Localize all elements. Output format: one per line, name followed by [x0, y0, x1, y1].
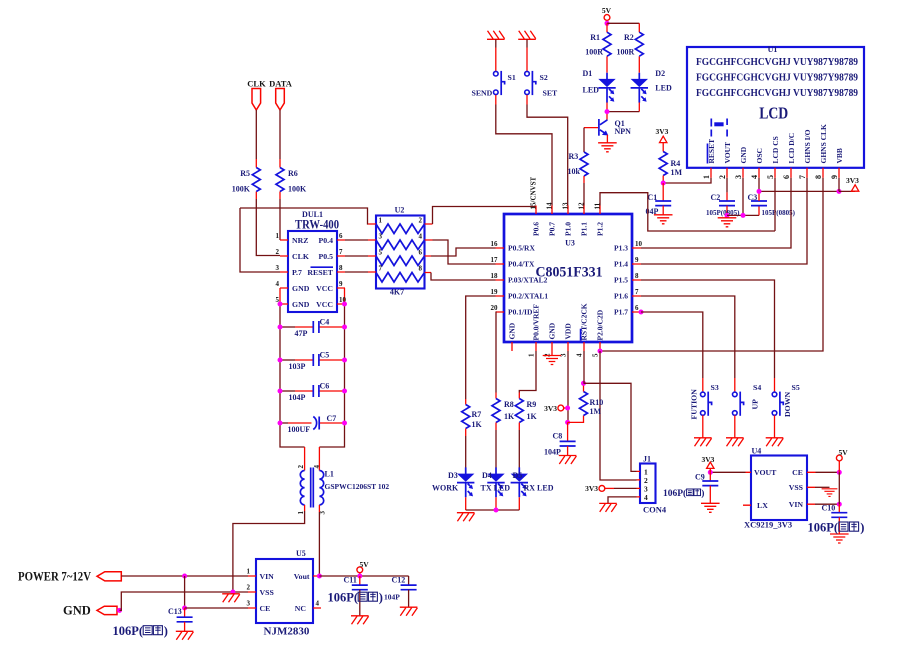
node GND arrow — [117, 608, 122, 613]
svg-text:D4: D4 — [482, 471, 492, 480]
svg-text:P0.5: P0.5 — [318, 252, 333, 261]
power 3V3 above R4 — [656, 127, 669, 152]
svg-text:P0.6: P0.6 — [532, 222, 541, 236]
svg-text:5V: 5V — [360, 560, 370, 569]
svg-text:3V3: 3V3 — [702, 455, 715, 464]
ground LED rail — [457, 513, 475, 522]
LED D3 WORK — [432, 467, 474, 497]
svg-text:1K: 1K — [504, 412, 515, 421]
node C6 left — [278, 389, 283, 394]
svg-text:OSC: OSC — [755, 148, 764, 163]
svg-text:D3: D3 — [448, 471, 458, 480]
display U1 LCD — [687, 45, 864, 179]
wire P.7 left rail — [240, 208, 280, 272]
svg-text:C7: C7 — [327, 414, 337, 423]
wire P2.0 to J1 pin2 — [600, 351, 637, 480]
svg-text:4K7: 4K7 — [390, 288, 404, 297]
svg-text:GHNS I/O: GHNS I/O — [803, 129, 812, 163]
svg-text:10k: 10k — [568, 167, 581, 176]
svg-text:S5: S5 — [792, 383, 800, 392]
svg-text:100UF: 100UF — [288, 425, 311, 434]
resistor R10 — [580, 383, 604, 416]
svg-text:): ) — [379, 591, 383, 605]
svg-text:104P: 104P — [544, 448, 561, 457]
node D1/D2/Q1 — [605, 109, 610, 114]
capacitor C3 — [748, 191, 796, 217]
power 5V at Vout — [357, 560, 369, 576]
svg-text:4: 4 — [576, 353, 584, 357]
svg-text:20: 20 — [491, 304, 499, 312]
wire LCD pin4 OSC to 3V3 rail — [759, 178, 839, 192]
svg-text:VCC: VCC — [316, 300, 333, 309]
wire Q1 base to R3 — [583, 128, 585, 152]
svg-text:100K: 100K — [232, 185, 251, 194]
svg-text:C9: C9 — [695, 473, 705, 482]
wire S3 to ground — [702, 415, 704, 437]
svg-text:VSS: VSS — [789, 483, 803, 492]
label C11 value 106P ceramic — [328, 591, 383, 605]
svg-text:NC: NC — [295, 604, 307, 613]
svg-text:VIN: VIN — [789, 500, 804, 509]
svg-text:6: 6 — [339, 232, 343, 240]
svg-text:VSS: VSS — [260, 588, 274, 597]
svg-text:100R: 100R — [585, 48, 603, 57]
wire U3 P2.0 to LCD pin8 — [600, 178, 823, 351]
svg-text:4: 4 — [313, 465, 321, 469]
wire VCC rail right — [319, 304, 344, 447]
svg-text:GHNS CLK: GHNS CLK — [819, 124, 828, 164]
node 5V/C11 — [357, 574, 362, 579]
svg-text:106P(: 106P( — [808, 521, 839, 535]
svg-text:100K: 100K — [288, 185, 307, 194]
power 5V top — [602, 6, 612, 23]
svg-text:100R: 100R — [617, 48, 635, 57]
svg-text:D1: D1 — [583, 69, 593, 78]
wire R3 to U3 pin12 — [583, 183, 585, 206]
regulator U5 NJM2830 — [247, 549, 322, 638]
node VDD/C8/R10 — [565, 420, 570, 425]
svg-text:106P(: 106P( — [113, 624, 144, 638]
wire POWER to U5 VIN — [121, 575, 248, 577]
svg-text:CLK: CLK — [292, 252, 309, 261]
svg-text:4: 4 — [316, 600, 320, 608]
svg-text:15/CNVST: 15/CNVST — [529, 176, 537, 209]
svg-text:L1: L1 — [325, 470, 334, 479]
svg-text:1: 1 — [297, 511, 305, 515]
svg-text:1M: 1M — [590, 407, 602, 416]
svg-text:8: 8 — [635, 272, 639, 280]
wire U2 pin4 to U3 P0.4/TX — [433, 240, 496, 264]
node VOUT/C9 — [708, 470, 713, 475]
wire S2 to U3 pin13 — [527, 95, 568, 206]
svg-text:7: 7 — [339, 248, 343, 256]
ground C8 — [559, 456, 577, 465]
LED D1 — [583, 69, 616, 103]
ground C2 — [718, 218, 737, 227]
svg-text:VDD: VDD — [564, 323, 573, 340]
switch S3 FUTION — [690, 383, 719, 420]
svg-text:TX LED: TX LED — [481, 484, 511, 493]
svg-text:LCD: LCD — [759, 104, 788, 123]
ground S3 — [694, 438, 712, 447]
svg-text:GND: GND — [508, 322, 517, 339]
svg-text:J1: J1 — [643, 455, 651, 464]
wire U3 P0.1/ID to R8 — [495, 312, 498, 393]
wire C2/pin3/C3 bottoms — [727, 214, 759, 216]
svg-text:1: 1 — [379, 217, 383, 225]
wire U3 P1.4 to LCD pin7 — [641, 178, 807, 264]
svg-text:C4: C4 — [320, 318, 330, 327]
svg-text:P2.0/C2D: P2.0/C2D — [596, 309, 605, 340]
wire LED cathodes rail — [466, 497, 520, 510]
antenna S1 — [487, 31, 505, 72]
wire DUL1 pin7 to U2 pin5 — [345, 255, 368, 257]
LED D5 RX — [511, 467, 554, 497]
svg-text:NPN: NPN — [615, 127, 632, 136]
svg-text:6: 6 — [419, 249, 423, 257]
switch S5 DOWN — [772, 383, 800, 417]
svg-text:P.03/XTAL2: P.03/XTAL2 — [508, 276, 548, 285]
capacitor C7 polarized — [280, 414, 345, 434]
svg-text:DOWN: DOWN — [783, 392, 792, 417]
node C13/CE — [182, 606, 187, 611]
svg-text:5V: 5V — [839, 448, 849, 457]
wire LCD pin1 RESET to R4/C1 — [663, 178, 711, 183]
svg-text:C3: C3 — [748, 193, 758, 202]
svg-text:C13: C13 — [168, 607, 182, 616]
ground C11 — [351, 616, 369, 625]
svg-text:5: 5 — [592, 353, 600, 357]
svg-text:R9: R9 — [527, 400, 537, 409]
wire L1 pin3 to Vout node — [318, 505, 320, 576]
capacitor C6 — [280, 382, 345, 402]
svg-text:1: 1 — [702, 175, 711, 179]
svg-text:106P(: 106P( — [663, 488, 686, 499]
capacitor C2 — [706, 192, 740, 217]
power 3V3 at C9 — [702, 455, 715, 473]
node C5 right — [342, 358, 347, 363]
svg-text:P1.6: P1.6 — [614, 292, 628, 301]
svg-text:UP: UP — [751, 399, 760, 410]
svg-text:R2: R2 — [624, 33, 634, 42]
svg-text:VOUT: VOUT — [723, 142, 732, 164]
svg-text:FGCGHFCGHCVGHJ VUY987Y98789: FGCGHFCGHCVGHJ VUY987Y98789 — [696, 72, 858, 84]
resistor R2 — [617, 23, 644, 73]
svg-text:TRW-400: TRW-400 — [295, 217, 339, 232]
wire VIN node to C13 — [184, 576, 186, 608]
svg-text:P0.2/XTAL1: P0.2/XTAL1 — [508, 292, 548, 301]
label C9 value 106P ceramic — [663, 488, 704, 499]
svg-text:8: 8 — [419, 265, 423, 273]
svg-text:LX: LX — [757, 501, 768, 510]
wire S5 to ground — [774, 415, 776, 437]
svg-text:19: 19 — [491, 288, 499, 296]
wire L1 pin1 to VSS rail — [233, 505, 305, 592]
svg-text:9: 9 — [635, 256, 639, 264]
wire LCD pin2 to C2 — [726, 178, 728, 193]
svg-text:1K: 1K — [472, 420, 483, 429]
svg-text:NJM2830: NJM2830 — [264, 626, 310, 638]
svg-text:3: 3 — [734, 175, 743, 179]
svg-text:): ) — [701, 488, 704, 499]
LED D4 TX — [481, 467, 511, 497]
wire 5V to R2 — [607, 22, 639, 24]
wire D2 to node — [609, 103, 639, 112]
svg-text:GND: GND — [292, 300, 310, 309]
antenna S2 — [518, 31, 536, 72]
ground S4 — [726, 438, 744, 447]
capacitor C5 — [280, 351, 345, 371]
svg-text:CON4: CON4 — [643, 505, 667, 515]
capacitor C8 — [544, 422, 576, 456]
wire RST to J1 pin1 — [584, 383, 637, 471]
svg-text:1M: 1M — [671, 168, 683, 177]
svg-text:7: 7 — [635, 288, 639, 296]
svg-text:P1.5: P1.5 — [614, 276, 628, 285]
node C6 right — [342, 389, 347, 394]
wire U2 pin2 to U3 P0.6 — [433, 207, 537, 225]
capacitor C1 — [646, 183, 672, 216]
svg-text:CE: CE — [260, 604, 271, 613]
regulator U4 XC9219 — [743, 447, 816, 530]
wire C13 node to U5 CE — [185, 607, 248, 609]
svg-text:R8: R8 — [504, 400, 514, 409]
svg-text:P0.1/ID: P0.1/ID — [508, 308, 533, 317]
svg-text:LED: LED — [655, 84, 672, 93]
svg-text:RESET: RESET — [307, 268, 333, 277]
svg-text:9: 9 — [830, 175, 839, 179]
wire GND to U5 VSS — [120, 592, 249, 610]
svg-text:3: 3 — [247, 600, 251, 608]
LED D2 — [631, 69, 672, 103]
ground U4 VSS — [822, 489, 838, 497]
svg-text:C8: C8 — [553, 432, 563, 441]
svg-text:2: 2 — [276, 248, 280, 256]
node D4 cathode — [494, 508, 499, 513]
svg-text:P1.3: P1.3 — [614, 244, 628, 253]
resistor R3 — [568, 152, 589, 183]
svg-text:1: 1 — [276, 232, 280, 240]
node C4 right — [342, 325, 347, 330]
wire U4 VSS to ground — [815, 486, 830, 488]
svg-text:3: 3 — [276, 264, 280, 272]
svg-text:VCC: VCC — [316, 284, 333, 293]
node C7 left — [278, 421, 283, 426]
svg-text:3V3: 3V3 — [585, 484, 598, 493]
resistor R1 — [585, 23, 611, 73]
svg-text:8: 8 — [814, 175, 823, 179]
wire D1 to Q1 collector — [606, 103, 608, 121]
svg-text:7: 7 — [798, 175, 807, 179]
wire P1.6 to S4 — [641, 296, 735, 391]
resistor R9 — [515, 393, 537, 431]
transistor Q1 NPN — [584, 119, 631, 143]
resistor R6 — [276, 159, 307, 199]
svg-text:LED: LED — [583, 86, 600, 95]
svg-text:C1: C1 — [648, 193, 658, 202]
wire S4 to ground — [734, 415, 736, 437]
wire U2 pin8 to U3 P.03/XTAL2 — [431, 273, 496, 281]
wire P1.5 to S5 — [641, 280, 775, 391]
svg-text:LCD CS: LCD CS — [771, 136, 780, 163]
svg-text:GND: GND — [739, 146, 748, 163]
wire GND rail left — [280, 304, 305, 447]
svg-text:DATA: DATA — [269, 79, 293, 89]
svg-text:6: 6 — [782, 175, 791, 179]
node R4/C1/RESET — [661, 181, 666, 186]
wire R8 to D4 — [495, 430, 497, 468]
capacitor C4 — [280, 318, 345, 338]
wire VDD node to R10 — [568, 416, 584, 423]
svg-text:U5: U5 — [296, 549, 306, 558]
resistor R8 — [492, 393, 515, 431]
svg-text:P0.7: P0.7 — [548, 222, 557, 236]
svg-text:4: 4 — [419, 233, 423, 241]
component DUL1 TRW-400 — [276, 210, 347, 312]
svg-text:3V3: 3V3 — [544, 404, 557, 413]
svg-text:P1.7: P1.7 — [614, 308, 628, 317]
capacitor C10 — [822, 504, 848, 534]
node LCD pin9 VBB — [837, 189, 842, 194]
wire J1 pin4 to ground — [608, 497, 637, 503]
svg-text:C12: C12 — [392, 576, 406, 585]
svg-text:SEND: SEND — [472, 89, 493, 98]
svg-text:D5: D5 — [513, 471, 523, 480]
wire top rail to U2 pin1 — [240, 208, 368, 224]
wire U4 VIN to 5V rail — [815, 503, 839, 505]
node rail right top — [342, 302, 347, 307]
ground VSS rail — [222, 594, 240, 603]
resistor network U2 — [368, 206, 433, 297]
svg-text:U1: U1 — [768, 45, 778, 54]
svg-text:2: 2 — [419, 217, 423, 225]
resistor R7 — [462, 399, 483, 436]
svg-text:): ) — [860, 521, 864, 535]
svg-text:2: 2 — [297, 465, 305, 469]
svg-text:P1.4: P1.4 — [614, 260, 628, 269]
svg-text:S2: S2 — [540, 73, 548, 82]
ground C12 — [400, 607, 418, 616]
svg-text:WORK: WORK — [432, 484, 459, 493]
wire U3 P0.2/XTAL1 to R7 — [466, 296, 496, 399]
svg-text:18: 18 — [491, 272, 499, 280]
wire S1 to U3 pin14 — [496, 95, 552, 206]
wire P1.7 to S3 — [641, 312, 703, 391]
node 5V junction — [605, 21, 610, 26]
svg-text:): ) — [164, 624, 168, 638]
svg-text:104P: 104P — [289, 393, 306, 402]
capacitor C13 — [168, 607, 193, 631]
svg-text:4: 4 — [750, 175, 759, 179]
svg-text:R3: R3 — [569, 152, 579, 161]
svg-text:Vout: Vout — [294, 572, 310, 581]
connector DATA — [269, 79, 293, 111]
svg-text:P.7: P.7 — [292, 268, 302, 277]
mcu U3 C8051F331 — [491, 176, 643, 357]
wire DUL1 pin6 to U2 pin3 — [345, 239, 368, 241]
switch S4 UP — [733, 383, 762, 416]
wire LCD pin5 down — [774, 178, 776, 231]
power 3V3 right — [839, 176, 859, 191]
node VSS/L1 — [230, 590, 235, 595]
switch S1 — [472, 71, 516, 98]
wire U3 VDD down — [567, 351, 569, 422]
svg-text:3: 3 — [379, 233, 383, 241]
wire 5V rail down — [838, 472, 840, 504]
ground C13 — [176, 631, 194, 640]
svg-text:FGCGHFCGHCVGHJ VUY987Y98789: FGCGHFCGHCVGHJ VUY987Y98789 — [696, 87, 858, 99]
svg-text:RX LED: RX LED — [524, 484, 554, 493]
node C3 top — [757, 189, 762, 194]
wire U3 RST down — [583, 351, 585, 383]
svg-text:7: 7 — [379, 265, 383, 273]
svg-text:104P: 104P — [384, 593, 400, 602]
node U3 P2.0 — [598, 349, 603, 354]
wire LCD pin9 VBB — [838, 178, 840, 192]
svg-text:R10: R10 — [590, 398, 604, 407]
svg-text:LCD D/C: LCD D/C — [787, 133, 796, 164]
svg-text:5V: 5V — [602, 6, 612, 15]
svg-text:R7: R7 — [472, 410, 482, 419]
node VIN/C10 — [837, 502, 842, 507]
label C10 value 106P ceramic — [808, 521, 865, 535]
svg-text:S4: S4 — [753, 383, 761, 392]
svg-text:9: 9 — [339, 280, 343, 288]
ground C9 — [701, 503, 720, 512]
svg-text:106P(: 106P( — [328, 591, 359, 605]
label C13 value 106P ceramic — [113, 624, 168, 638]
svg-text:3V3: 3V3 — [846, 176, 859, 185]
wire U2 pin6 to U3 P0.5/RX — [431, 248, 496, 256]
svg-text:47P: 47P — [295, 329, 308, 338]
node U3 P1.7 stub — [639, 310, 644, 315]
svg-text:P1.0: P1.0 — [564, 222, 573, 236]
connector POWER 7~12V — [18, 570, 121, 584]
svg-text:4: 4 — [644, 493, 648, 502]
svg-text:C6: C6 — [320, 382, 330, 391]
wire R5 to DUL1 pin2 — [256, 199, 280, 256]
svg-text:CE: CE — [792, 468, 803, 477]
capacitor C12 — [384, 576, 417, 608]
svg-text:R4: R4 — [671, 159, 681, 168]
resistor R4 — [659, 152, 682, 184]
wire DATA to R6 — [279, 110, 281, 159]
node C7 right — [342, 421, 347, 426]
svg-text:GSPWC1206ST 102: GSPWC1206ST 102 — [325, 482, 390, 491]
svg-text:S1: S1 — [508, 73, 516, 82]
wire LCD pin3 GND down — [742, 178, 744, 216]
svg-text:4: 4 — [276, 280, 280, 288]
capacitor C11 — [344, 576, 368, 616]
wire R7 to D3 — [465, 436, 467, 468]
inductor L1 — [297, 447, 389, 515]
svg-text:16: 16 — [491, 240, 499, 248]
svg-text:GND: GND — [292, 284, 310, 293]
ground S5 — [766, 438, 784, 447]
svg-text:U4: U4 — [752, 447, 762, 456]
node C4 left — [278, 325, 283, 330]
svg-text:5: 5 — [379, 249, 383, 257]
svg-text:1K: 1K — [527, 412, 538, 421]
svg-text:2: 2 — [247, 584, 251, 592]
svg-text:SET: SET — [543, 89, 559, 98]
node POWER/C13 — [182, 574, 187, 579]
connector CLK — [247, 79, 266, 111]
wire CLK to R5 — [255, 110, 257, 159]
wire U3 P1.3 to LCD pin6 — [641, 178, 791, 248]
node RST/R10 — [581, 381, 586, 386]
wire R9 to D5 — [518, 430, 520, 468]
